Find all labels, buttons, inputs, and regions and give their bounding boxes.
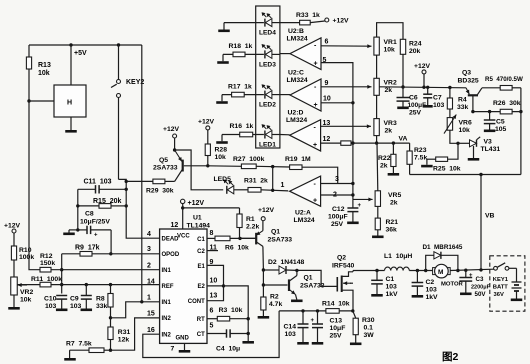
svg-text:R16 1k: R16 1k (230, 123, 254, 130)
svg-text:VA: VA (399, 136, 408, 143)
label U2:A (294, 210, 315, 225)
label TL1494 (187, 223, 211, 230)
svg-text:+: + (314, 61, 318, 68)
transistor Q5 2SA733 (175, 150, 208, 181)
svg-text:150k: 150k (40, 260, 55, 267)
resistor R5 470/0.5W (482, 76, 523, 90)
svg-text:R31 2k: R31 2k (244, 178, 268, 185)
svg-text:C1: C1 (197, 237, 205, 243)
svg-text:R33 1k: R33 1k (296, 12, 320, 19)
capacitor C11 (78, 185, 126, 193)
label LED2 (259, 102, 276, 109)
svg-text:C13: C13 (330, 318, 343, 325)
svg-text:33k: 33k (96, 303, 108, 310)
label BD325 (458, 78, 479, 85)
terminal +12V Q5 (163, 126, 180, 138)
svg-text:10μF/25V: 10μF/25V (80, 219, 110, 226)
svg-text:E1: E1 (197, 264, 205, 270)
wire +12V row to R1 (183, 207, 240, 209)
ground below VR2 (8, 295, 20, 310)
resistor R33 1k (280, 12, 325, 25)
svg-text:36k: 36k (386, 227, 398, 234)
svg-text:Q5: Q5 (159, 157, 168, 164)
svg-text:CT: CT (197, 332, 205, 338)
wire pin13 to VR3 wiper (321, 124, 371, 128)
svg-text:8: 8 (210, 230, 214, 237)
capacitor C4 (207, 329, 248, 352)
LED2 (222, 85, 280, 99)
svg-text:C12: C12 (332, 206, 345, 213)
node D1 right (456, 269, 459, 272)
wire +5V column to pin1 (141, 45, 143, 302)
label pin5 (323, 57, 327, 64)
svg-text:R22: R22 (378, 155, 391, 162)
svg-text:9: 9 (325, 80, 329, 87)
wire KEY2 to pin4 column (119, 179, 160, 238)
svg-text:2k: 2k (385, 128, 393, 135)
op-amp U2:B (280, 38, 321, 70)
node R3 right (247, 317, 250, 320)
capacitor C7 (423, 86, 433, 108)
chip right pin numbers (210, 230, 218, 330)
svg-text:1: 1 (147, 295, 151, 302)
svg-text:C3: C3 (476, 276, 484, 283)
svg-text:R13: R13 (38, 62, 51, 69)
label LED1 (259, 142, 276, 149)
svg-text:BATT: BATT (493, 285, 508, 291)
svg-text:C8: C8 (85, 211, 94, 218)
ground below H (65, 117, 77, 133)
LED display box (256, 6, 280, 148)
svg-text:2200μF: 2200μF (471, 285, 491, 291)
label Q1 lower (300, 275, 325, 290)
wire R31 node to pin15 (111, 318, 160, 350)
svg-text:100k: 100k (19, 254, 34, 261)
svg-text:L1 10μH: L1 10μH (384, 253, 412, 260)
svg-text:12: 12 (323, 136, 331, 143)
svg-text:10k: 10k (215, 154, 227, 161)
label 2SA733 Q5 (153, 165, 178, 172)
motor M (433, 264, 451, 278)
wire +5V rail (29, 44, 142, 46)
wire VR2-VR3 (376, 95, 378, 118)
svg-text:25V: 25V (330, 333, 343, 340)
wire E2 node to CONT column (224, 286, 249, 341)
svg-text:REF: REF (162, 284, 174, 290)
shunt regulator V3 TL431 (458, 137, 480, 161)
svg-text:R25 10k: R25 10k (433, 166, 461, 173)
svg-text:15: 15 (147, 311, 155, 318)
svg-text:14: 14 (147, 279, 155, 286)
wire pin3 row (321, 182, 355, 185)
svg-text:100μF: 100μF (328, 214, 348, 221)
wire VA row (353, 142, 410, 144)
svg-text:16: 16 (147, 327, 155, 334)
label C3 (471, 276, 491, 298)
svg-text:R23: R23 (414, 147, 427, 154)
svg-text:+: + (313, 198, 317, 205)
svg-text:IN1: IN1 (162, 300, 172, 306)
label C2 (426, 279, 439, 301)
svg-text:VR2: VR2 (384, 80, 397, 87)
battery box KEY1 (490, 256, 525, 311)
svg-text:R26 30k: R26 30k (493, 100, 521, 107)
capacitor C14 (297, 311, 309, 345)
svg-text:+12V: +12V (258, 207, 275, 214)
node +5V rail to KEY2 (117, 43, 120, 46)
transistor Q3 BD325 (466, 88, 482, 112)
resistor R10 (11, 246, 34, 261)
capacitor C12 (347, 199, 361, 224)
svg-text:10k: 10k (459, 127, 471, 134)
capacitor C13 (311, 311, 324, 345)
transistor Q2 IRF540 mosfet (337, 272, 353, 311)
node VR6-V3-R25 (456, 142, 459, 145)
svg-text:1: 1 (281, 182, 285, 189)
svg-text:R27 100k: R27 100k (233, 156, 265, 163)
svg-text:+12V: +12V (198, 119, 215, 126)
resistor R26 30k (493, 100, 521, 114)
node R30 top (351, 309, 354, 312)
svg-text:LM324: LM324 (287, 77, 308, 84)
op-amp U2:D (280, 120, 321, 151)
wire LED5 to R31 (234, 189, 248, 191)
svg-text:Q3: Q3 (462, 70, 471, 77)
svg-text:36V: 36V (494, 292, 504, 298)
svg-text:10μF: 10μF (330, 325, 346, 332)
svg-text:+12V: +12V (333, 18, 350, 25)
svg-text:IN2: IN2 (162, 316, 172, 322)
svg-text:R1: R1 (246, 216, 255, 223)
label C14 (284, 324, 297, 339)
potentiometer VR1 10k (374, 37, 397, 55)
svg-text:LED2: LED2 (259, 102, 276, 109)
wire VR3 to VA row (375, 136, 378, 145)
svg-text:Q1: Q1 (304, 275, 313, 282)
svg-text:LM324: LM324 (286, 117, 307, 124)
resistor R21 36k (372, 206, 398, 238)
svg-text:7: 7 (171, 346, 175, 353)
label U2:C (287, 70, 308, 85)
svg-text:R6 10k: R6 10k (225, 245, 249, 252)
svg-text:V3: V3 (484, 139, 493, 146)
svg-text:+12V: +12V (414, 63, 431, 70)
wire base row to R27 (208, 165, 242, 168)
wire gate path (297, 270, 337, 286)
svg-text:10k: 10k (38, 70, 50, 77)
svg-text:3: 3 (147, 246, 151, 253)
capacitor C6 (397, 87, 410, 109)
node R8 bottom (109, 316, 112, 319)
wire emitter node to LED5 row (175, 150, 224, 190)
node R22 top (392, 141, 395, 144)
node R11 row (60, 283, 63, 286)
svg-text:MOTOR: MOTOR (441, 282, 464, 288)
svg-text:C4 10μ: C4 10μ (216, 346, 240, 353)
svg-text:20k: 20k (409, 48, 421, 55)
svg-text:2k: 2k (390, 200, 398, 207)
hall sensor H box (54, 85, 86, 117)
terminal +12V R28 (198, 119, 215, 130)
svg-text:GND: GND (176, 336, 190, 342)
svg-text:50V: 50V (475, 291, 487, 298)
svg-text:R12: R12 (40, 253, 53, 260)
svg-text:M: M (438, 269, 443, 276)
label pin2 (333, 192, 337, 199)
ground C8 left (63, 230, 78, 235)
svg-text:C9: C9 (70, 296, 79, 303)
svg-text:U2:B: U2:B (288, 28, 304, 35)
svg-text:LM324: LM324 (287, 36, 308, 43)
wire C8 down to R9 row (110, 230, 112, 254)
label U1 (193, 215, 202, 222)
svg-text:Q2: Q2 (337, 255, 346, 262)
svg-text:3: 3 (335, 176, 339, 183)
resistor R16 1k (230, 123, 254, 137)
resistor R17 1k (228, 84, 252, 97)
svg-text:12k: 12k (118, 337, 130, 344)
resistor R11 (18, 276, 160, 287)
wire VR1-R24 top loop (377, 23, 403, 40)
svg-text:10k: 10k (20, 297, 32, 304)
node R13 bottom / H input (27, 99, 30, 102)
svg-text:25V: 25V (331, 221, 344, 228)
resistor R14 10k (322, 301, 350, 314)
switch KEY1 (494, 263, 509, 270)
wire Q5 emitter node (173, 138, 176, 152)
chip VCC label (177, 234, 190, 240)
wire H continues down to R12 row (29, 101, 40, 270)
wire motor to C3 (450, 269, 493, 270)
wire source row (279, 310, 353, 312)
wire L1 to motor row (409, 270, 433, 272)
node C4 right (247, 332, 250, 335)
wire drain to L1 row (353, 271, 385, 272)
label C10 103 (44, 296, 57, 311)
svg-text:+12V: +12V (163, 126, 180, 133)
svg-text:10: 10 (210, 278, 218, 285)
resistor R3 10k (207, 307, 248, 321)
svg-text:+: + (94, 233, 98, 239)
op-amp U2:C (280, 79, 321, 111)
wire VA row to VR5 (376, 143, 379, 191)
svg-text:VR6: VR6 (459, 120, 472, 127)
LED3 (223, 44, 280, 58)
potentiometer VR2 10k left (11, 260, 34, 304)
node C8-R9 junction (109, 252, 112, 255)
svg-text:LED5: LED5 (214, 176, 232, 183)
svg-text:OPOD: OPOD (162, 252, 180, 258)
capacitor C1 (371, 271, 383, 297)
svg-text:LED4: LED4 (259, 30, 276, 37)
wire VR1-VR2 (376, 55, 378, 78)
resistor R23 7.5k (407, 143, 427, 174)
svg-text:R4: R4 (458, 97, 467, 104)
ground LED3 row (217, 54, 229, 63)
label R15 20k (93, 198, 122, 205)
ground CT column (242, 341, 254, 344)
resistor R9 (62, 252, 160, 257)
svg-text:D1 MBR1645: D1 MBR1645 (423, 244, 463, 251)
svg-text:+: + (314, 102, 318, 109)
wire R8 node to pin1 row (111, 302, 160, 318)
resistor R18 1k (229, 43, 253, 57)
IC U1 TL1494 body (160, 229, 207, 343)
node C14 top (301, 309, 304, 312)
wire pin5 to bus (321, 63, 353, 200)
wire VCC (181, 204, 184, 229)
label figure 2 (442, 351, 458, 363)
svg-text:BD325: BD325 (458, 78, 479, 85)
node VB bottom (479, 268, 482, 271)
potentiometer VR2 2k (374, 78, 397, 95)
resistor R31 12k (108, 318, 131, 350)
LED1 (222, 124, 280, 138)
capacitor C2 (412, 271, 424, 298)
node R26 right (519, 110, 522, 113)
node R24-C6 (401, 85, 404, 88)
resistor R13 (26, 45, 51, 101)
potentiometer VR3 2k (374, 119, 397, 136)
svg-text:LED3: LED3 (259, 62, 276, 69)
label C1 (386, 276, 399, 298)
wire pin6 to VR1 wiper (321, 44, 372, 48)
capacitor C5 (484, 110, 496, 132)
svg-text:R17 1k: R17 1k (228, 84, 252, 91)
svg-text:RT: RT (197, 317, 205, 323)
capacitor C8 (78, 226, 111, 239)
ground R7 left (64, 350, 76, 360)
label C11 103 (84, 179, 112, 186)
svg-text:R18 1k: R18 1k (229, 43, 253, 50)
capacitor C3 (459, 270, 473, 295)
node C2 top (416, 269, 419, 272)
resistor R24 20k (400, 39, 421, 87)
svg-text:IN2: IN2 (162, 332, 172, 338)
wire R25 riser (448, 143, 458, 159)
terminal +12V for VCC (181, 199, 205, 207)
svg-text:R3 10k: R3 10k (219, 307, 243, 314)
transistor Q1 lower 2SA733 (289, 270, 297, 294)
svg-text:C10: C10 (44, 296, 57, 303)
svg-text:1kV: 1kV (426, 294, 439, 301)
wire D1 loop (426, 255, 458, 270)
label U2:B (287, 28, 308, 43)
label D1 MBR1645 (423, 244, 463, 251)
label pin1 opamp (281, 182, 285, 189)
node R29 tap (125, 180, 128, 183)
node R12 row (60, 268, 63, 271)
wire junction down to LED5 row (271, 167, 274, 192)
resistor R25 10k (427, 157, 461, 173)
chip left pin numbers (147, 231, 155, 334)
svg-text:+12V: +12V (188, 200, 205, 207)
chip GND label (176, 336, 190, 342)
label +5V (74, 50, 87, 57)
resistor R2 4.7k (258, 294, 283, 319)
label pin13 (323, 120, 331, 127)
svg-text:R30: R30 (362, 317, 375, 324)
resistor R19 1M (285, 156, 338, 184)
capacitor C9 (81, 283, 93, 311)
svg-text:R21: R21 (386, 219, 399, 226)
label D2 1N4148 (268, 259, 304, 266)
resistor R30 (350, 311, 362, 345)
label LED5 (214, 176, 232, 183)
svg-text:图2: 图2 (442, 351, 458, 363)
wire bottom VB rail (410, 174, 521, 176)
resistor R22 2k (378, 143, 399, 176)
label KEY2 (126, 79, 144, 86)
svg-text:IN1: IN1 (162, 268, 172, 274)
label Q1 upper (268, 229, 293, 244)
node VB (479, 173, 482, 176)
svg-text:C2: C2 (426, 279, 435, 286)
svg-text:2.2k: 2.2k (246, 224, 259, 231)
svg-text:103: 103 (433, 102, 445, 109)
svg-text:C1: C1 (386, 276, 395, 283)
node C11 tap (125, 188, 128, 191)
svg-text:2k: 2k (385, 87, 393, 94)
svg-text:TL431: TL431 (481, 146, 501, 153)
svg-text:R24: R24 (409, 41, 422, 48)
node D2 right (295, 269, 298, 272)
wire pin9 to VR2 wiper (321, 85, 372, 89)
label C5 (495, 119, 507, 134)
resistor R1 2.2k (237, 208, 260, 239)
label R9 17k (75, 245, 100, 252)
diode D1 MBR1645 (434, 252, 441, 259)
label V3 (484, 139, 493, 146)
label pin12 (323, 136, 331, 143)
svg-text:VR5: VR5 (388, 192, 401, 199)
svg-text:C2: C2 (197, 249, 205, 255)
node R15 left (76, 204, 79, 207)
node R31 bottom (109, 349, 112, 352)
svg-text:D2 1N4148: D2 1N4148 (268, 259, 304, 266)
resistor R6 10k (207, 236, 256, 251)
battery B1 (509, 268, 522, 301)
ground LED4 row (218, 23, 230, 32)
label C9 103 (70, 296, 82, 311)
wire pin10 to bus (321, 101, 355, 104)
wire right rail (520, 88, 522, 175)
rheostat VR6 10k (444, 109, 472, 134)
chip left pin names (162, 237, 180, 339)
svg-text:4.7k: 4.7k (269, 301, 282, 308)
wire pin9-10-13 bracket (207, 265, 225, 300)
svg-text:1kV: 1kV (386, 291, 399, 298)
label C6 (408, 95, 427, 117)
svg-text:103: 103 (386, 284, 398, 291)
wire left vertical C11-C8 (77, 189, 79, 230)
label pin 12 (171, 222, 179, 229)
resistor R29 30k (126, 179, 174, 194)
svg-text:2SA733: 2SA733 (268, 237, 293, 244)
svg-text:C5: C5 (496, 119, 505, 126)
svg-text:103: 103 (45, 303, 57, 310)
label C8 (80, 211, 110, 226)
svg-text:2SA733: 2SA733 (153, 165, 178, 172)
svg-text:C14: C14 (284, 324, 297, 331)
resistor R7 7.5k (66, 341, 111, 353)
terminal +12V rail (414, 63, 431, 89)
node R28 base row (206, 164, 209, 167)
svg-text:CONT: CONT (188, 299, 205, 305)
label Q2 (337, 255, 346, 262)
svg-text:KEY1: KEY1 (493, 277, 509, 283)
resistor R4 33k (447, 88, 468, 112)
